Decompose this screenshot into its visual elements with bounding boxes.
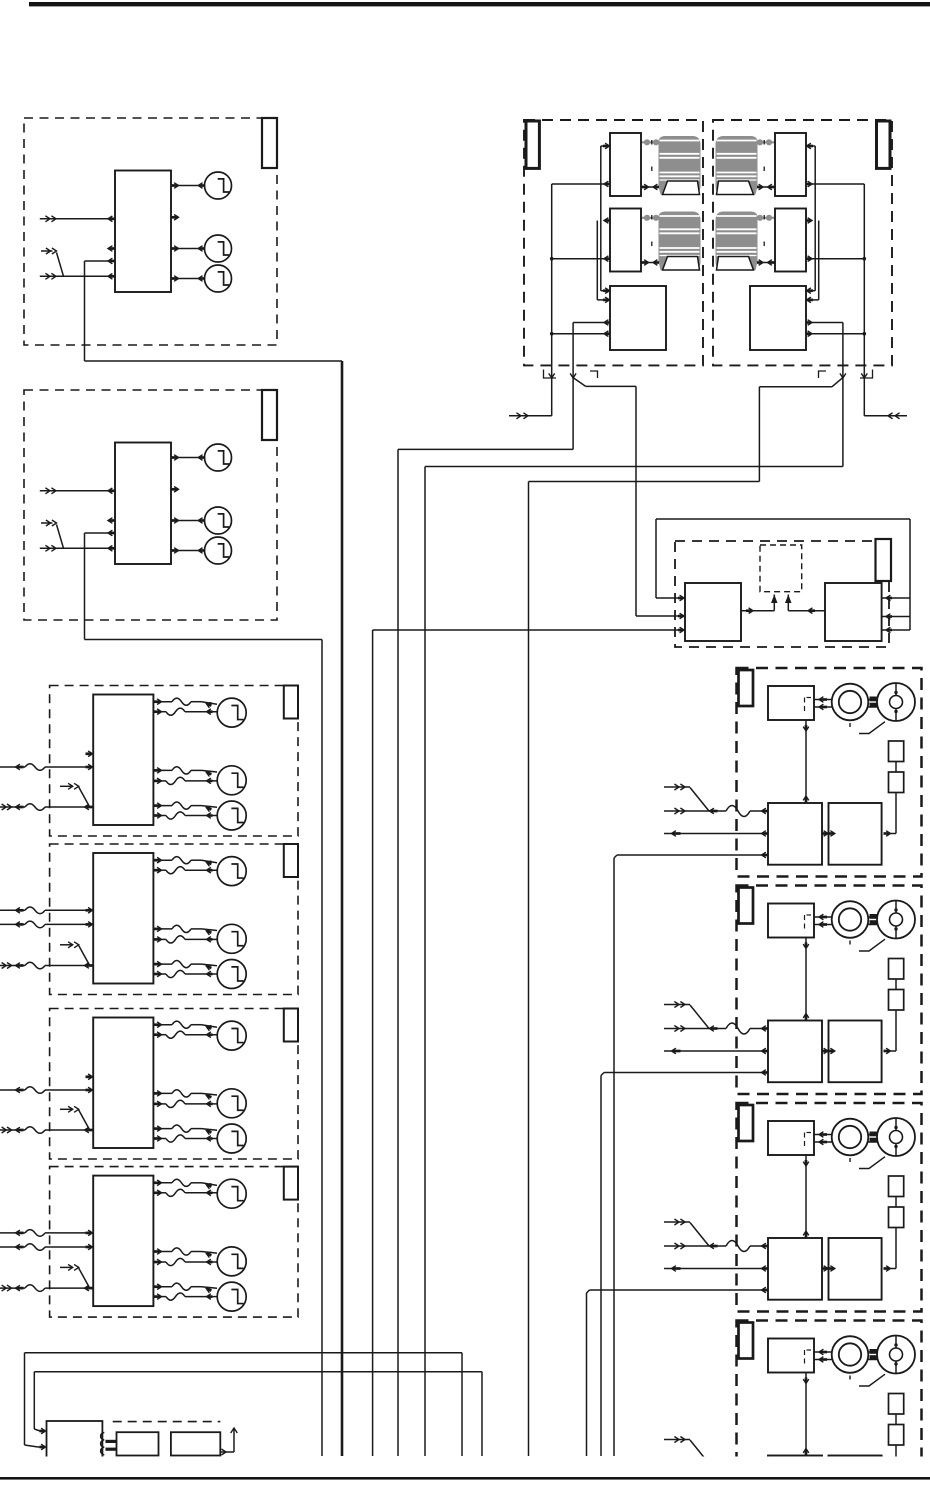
ground wire to bus	[601, 1070, 769, 1456]
indicator lamp 1	[171, 172, 232, 199]
wiper relay 3	[775, 133, 806, 196]
inter-block wire	[822, 1483, 835, 1486]
ground wire with squiggle	[0, 804, 93, 811]
input wire with squiggle	[0, 1230, 93, 1237]
internal wire relay4-to-control	[806, 218, 819, 303]
wiper relay 1	[610, 133, 641, 196]
bus wire from upper control unit (thick)	[341, 361, 344, 1456]
relay-to-controller wire	[803, 720, 809, 803]
relay block	[768, 686, 814, 720]
sensor dashed box	[760, 545, 802, 592]
internal wire relay2-to-control	[597, 218, 610, 303]
coupler block	[870, 697, 879, 708]
motor drive wire 4	[757, 260, 775, 266]
audio unit block	[47, 1421, 103, 1460]
control unit block	[115, 171, 171, 293]
lamp 2 with harness squiggles	[153, 924, 246, 953]
lamp driver block	[93, 1176, 153, 1307]
input arrow with branch	[60, 1264, 90, 1288]
dash-dot centerline	[651, 215, 653, 265]
horn/motor module dashed enclosure	[737, 668, 922, 877]
wiper motor pictogram 1	[642, 136, 701, 195]
relay box feed wire B	[34, 1372, 482, 1456]
input arrow 2 with branch	[41, 520, 64, 548]
motor drive wire 3	[757, 184, 775, 190]
input wire with squiggle	[664, 1458, 769, 1469]
controller block (right)	[829, 803, 882, 865]
control unit block	[115, 443, 171, 565]
indicator lamp 1	[171, 444, 232, 471]
output wire	[664, 1048, 769, 1054]
controller block (right)	[829, 1456, 882, 1486]
lamp driver block	[93, 695, 153, 826]
horn symbol	[832, 901, 869, 938]
connector tab	[739, 888, 754, 924]
internal wire relay1-to-control	[601, 143, 610, 293]
dashed enclosure (lamp control unit)	[24, 118, 277, 345]
washer motor symbol	[877, 1118, 915, 1156]
connector tab	[262, 390, 277, 440]
connector tab	[739, 670, 754, 706]
input arrow 2 with branch	[41, 248, 64, 276]
wire pair relay-to-horn	[814, 697, 890, 710]
resistor 1	[889, 1176, 904, 1197]
input arrow with branch	[60, 783, 90, 807]
lamp 3 with harness squiggles	[153, 1124, 246, 1153]
motor drive wire 1	[641, 184, 659, 190]
lamp 3 with harness squiggles	[153, 960, 246, 989]
input pin stub arrow	[108, 518, 115, 524]
connector tab	[739, 1323, 754, 1359]
connector tab	[262, 118, 277, 168]
resistor chain wire	[884, 762, 897, 837]
connector tab	[284, 686, 298, 719]
branch wire to washer control	[573, 378, 636, 616]
relay block	[768, 904, 814, 938]
relay internal dash marks	[805, 1133, 812, 1147]
coupler block	[870, 914, 879, 925]
input wire with squiggle	[664, 1241, 769, 1252]
relay internal dash marks	[805, 915, 812, 929]
resistor 1	[889, 959, 904, 980]
connector tab	[284, 1167, 298, 1200]
label pointer line	[859, 1374, 885, 1386]
page bottom rule	[0, 1477, 930, 1480]
transformer winding	[101, 1433, 117, 1455]
horn symbol	[832, 1119, 869, 1156]
label tick	[849, 723, 851, 727]
right supply wire with arrow	[861, 365, 907, 418]
indicator lamp 3	[171, 265, 232, 292]
washer control block (left)	[685, 583, 741, 641]
relay block	[768, 1121, 814, 1155]
wire from branch bus	[636, 613, 685, 619]
washer motor symbol	[877, 901, 915, 939]
relay-to-controller wire	[803, 1155, 809, 1238]
input wire 3	[40, 273, 115, 279]
amplifier block	[117, 1432, 159, 1455]
input pin stub arrow	[86, 1074, 93, 1080]
controller block (left)	[768, 1238, 822, 1300]
resistor chain wire	[884, 979, 897, 1054]
internal wire relay3-to-control	[807, 143, 816, 293]
internal feed wire B	[573, 320, 610, 366]
coupler block	[870, 1349, 879, 1360]
controller block (right)	[829, 1238, 882, 1300]
resistor chain wire	[884, 1197, 897, 1272]
input arrow 1 with branch	[664, 784, 709, 811]
input pin stub arrow	[86, 751, 93, 757]
washer control block (right)	[825, 583, 882, 641]
lamp 2 with harness squiggles	[153, 766, 246, 795]
lamp 2 with harness squiggles	[153, 1089, 246, 1118]
ground wire with squiggle	[0, 1127, 93, 1134]
wiper motor pictogram 3	[716, 136, 775, 195]
input arrow 1 with branch	[664, 1219, 709, 1246]
input arrow with branch	[60, 1106, 90, 1130]
ground wire to bus	[614, 852, 769, 1456]
label tick	[849, 1376, 851, 1380]
dashed enclosure (cut off)	[113, 1422, 221, 1456]
output pin stub arrow	[171, 215, 179, 221]
page top border bar	[29, 2, 930, 6]
lamp module dashed enclosure	[50, 1167, 298, 1318]
right signal wire to bus	[425, 365, 846, 1456]
lamp 1 with harness squiggles	[153, 1179, 246, 1208]
lamp module dashed enclosure	[50, 844, 298, 995]
dash-dot centerline	[763, 215, 765, 265]
feedback loop wire	[656, 519, 910, 633]
relay block	[768, 1339, 814, 1373]
lamp 1 with harness squiggles	[153, 857, 246, 886]
dash-dot centerline	[651, 140, 653, 190]
wiper motor pictogram 4	[716, 212, 775, 271]
controller block (left)	[768, 1456, 822, 1486]
wiper control unit (left)	[610, 286, 666, 350]
resistor 2	[889, 772, 904, 793]
washer control dashed enclosure	[675, 541, 889, 647]
lamp 1 with harness squiggles	[153, 698, 246, 727]
connector tab	[877, 121, 891, 168]
horn symbol	[832, 1336, 869, 1373]
output wire to bus	[85, 530, 323, 639]
controller block (left)	[768, 803, 822, 865]
lamp driver block	[93, 1018, 153, 1149]
label tick	[849, 1158, 851, 1162]
input arrow 1 with branch	[664, 1437, 709, 1464]
label pointer line	[859, 722, 885, 734]
input wire with squiggle	[0, 1087, 93, 1094]
wiper motor pictogram 2	[642, 212, 701, 271]
indicator lamp 2	[171, 235, 232, 262]
washer motor symbol	[877, 1336, 915, 1374]
controller block (left)	[768, 1021, 822, 1083]
label tick	[849, 941, 851, 945]
internal feed wire A	[550, 181, 610, 365]
indicator lamp 3	[171, 537, 232, 564]
connector tab	[739, 1105, 754, 1141]
horn/motor module dashed enclosure	[737, 1103, 922, 1312]
antenna symbol	[220, 1428, 237, 1455]
connector bracket marks	[819, 370, 873, 379]
resistor chain wire	[884, 1414, 897, 1486]
tuner block	[171, 1432, 220, 1455]
output wire to bus	[85, 258, 343, 361]
coupler block	[870, 1132, 879, 1143]
sensor wire left with arrow	[741, 595, 778, 614]
ground wire to bus	[587, 1287, 769, 1456]
front wiper unit dashed enclosure (left)	[524, 120, 703, 365]
dash-dot centerline	[763, 140, 765, 190]
sensor wire right with arrow	[785, 595, 825, 614]
input pin stub arrow	[108, 246, 115, 252]
relay box feed wire A	[25, 1353, 463, 1456]
front wiper unit dashed enclosure (right)	[713, 120, 892, 365]
input wire with squiggle	[664, 806, 769, 817]
wire pair relay-to-horn	[814, 1349, 890, 1362]
lamp module dashed enclosure	[50, 686, 298, 837]
bus wire from lower control unit	[321, 640, 323, 1457]
resistor 2	[889, 1207, 904, 1228]
lamp 3 with harness squiggles	[153, 801, 246, 830]
relay-to-controller wire	[803, 1373, 809, 1456]
input wire 1	[40, 488, 115, 494]
input wire with squiggle	[0, 1244, 93, 1251]
lamp 1 with harness squiggles	[153, 1021, 246, 1050]
horn/motor module dashed enclosure	[737, 886, 922, 1095]
dashed enclosure (lamp control unit)	[24, 390, 277, 620]
output pin stub arrow	[171, 487, 179, 493]
resistor 1	[889, 1394, 904, 1415]
wiper control unit (right)	[750, 286, 806, 350]
output wire	[664, 831, 769, 837]
relay-to-controller wire	[803, 938, 809, 1021]
lamp 3 with harness squiggles	[153, 1282, 246, 1311]
indicator lamp 2	[171, 507, 232, 534]
left signal wire to bus	[398, 365, 576, 1456]
input arrow with branch	[60, 942, 90, 966]
connector bracket marks	[544, 370, 598, 379]
horn symbol	[832, 684, 869, 721]
connector tab	[284, 844, 298, 877]
motor drive wire 2	[641, 260, 659, 266]
input wire 3	[40, 545, 115, 551]
wiper relay 4	[775, 209, 806, 272]
wire pair relay-to-horn	[814, 914, 890, 927]
input arrow 1 with branch	[664, 1002, 709, 1029]
inter-block wire	[822, 1048, 835, 1054]
controller block (right)	[829, 1021, 882, 1083]
relay internal dash marks	[805, 698, 812, 712]
input wire with squiggle	[664, 1023, 769, 1034]
connector tab	[526, 121, 539, 168]
internal feed wire C	[806, 181, 866, 365]
wiper relay 2	[610, 209, 641, 272]
resistor 1	[889, 741, 904, 762]
lamp 2 with harness squiggles	[153, 1247, 246, 1276]
right branch wire to bus	[529, 378, 843, 1456]
output wire	[664, 1483, 769, 1486]
inter-block wire	[822, 831, 835, 837]
horn/motor module dashed enclosure	[737, 1321, 922, 1486]
relay internal dash marks	[805, 1350, 812, 1364]
wire pair relay-to-horn	[814, 1132, 890, 1145]
input wire with squiggle	[0, 764, 93, 771]
inter-block wire	[822, 1266, 835, 1272]
resistor 2	[889, 1425, 904, 1446]
connector tab	[876, 539, 892, 581]
long wire to washer control pin3	[373, 627, 685, 1456]
connector tab	[284, 1009, 298, 1042]
output wire	[664, 1266, 769, 1272]
label pointer line	[859, 939, 885, 951]
input wire 1	[40, 216, 115, 222]
ground wire with squiggle	[0, 1285, 93, 1292]
resistor 2	[889, 990, 904, 1011]
washer motor symbol	[877, 683, 915, 721]
left supply wire with arrow	[509, 365, 555, 418]
lamp driver block	[93, 853, 153, 984]
internal feed wire D	[806, 320, 843, 366]
ground wire with squiggle	[0, 962, 93, 969]
input wire with squiggle	[0, 921, 93, 928]
lamp module dashed enclosure	[50, 1009, 298, 1160]
input wire with squiggle	[0, 907, 93, 914]
label pointer line	[859, 1157, 885, 1169]
